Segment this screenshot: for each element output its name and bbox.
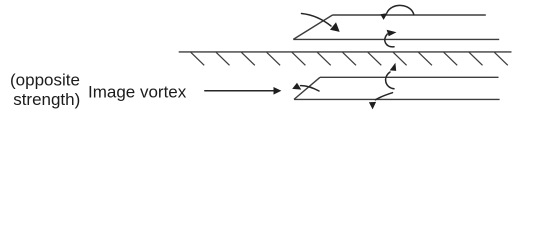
svg-text:(opposite: (opposite <box>10 71 80 90</box>
svg-text:strength): strength) <box>13 90 80 109</box>
svg-text:Image vortex: Image vortex <box>88 83 187 102</box>
